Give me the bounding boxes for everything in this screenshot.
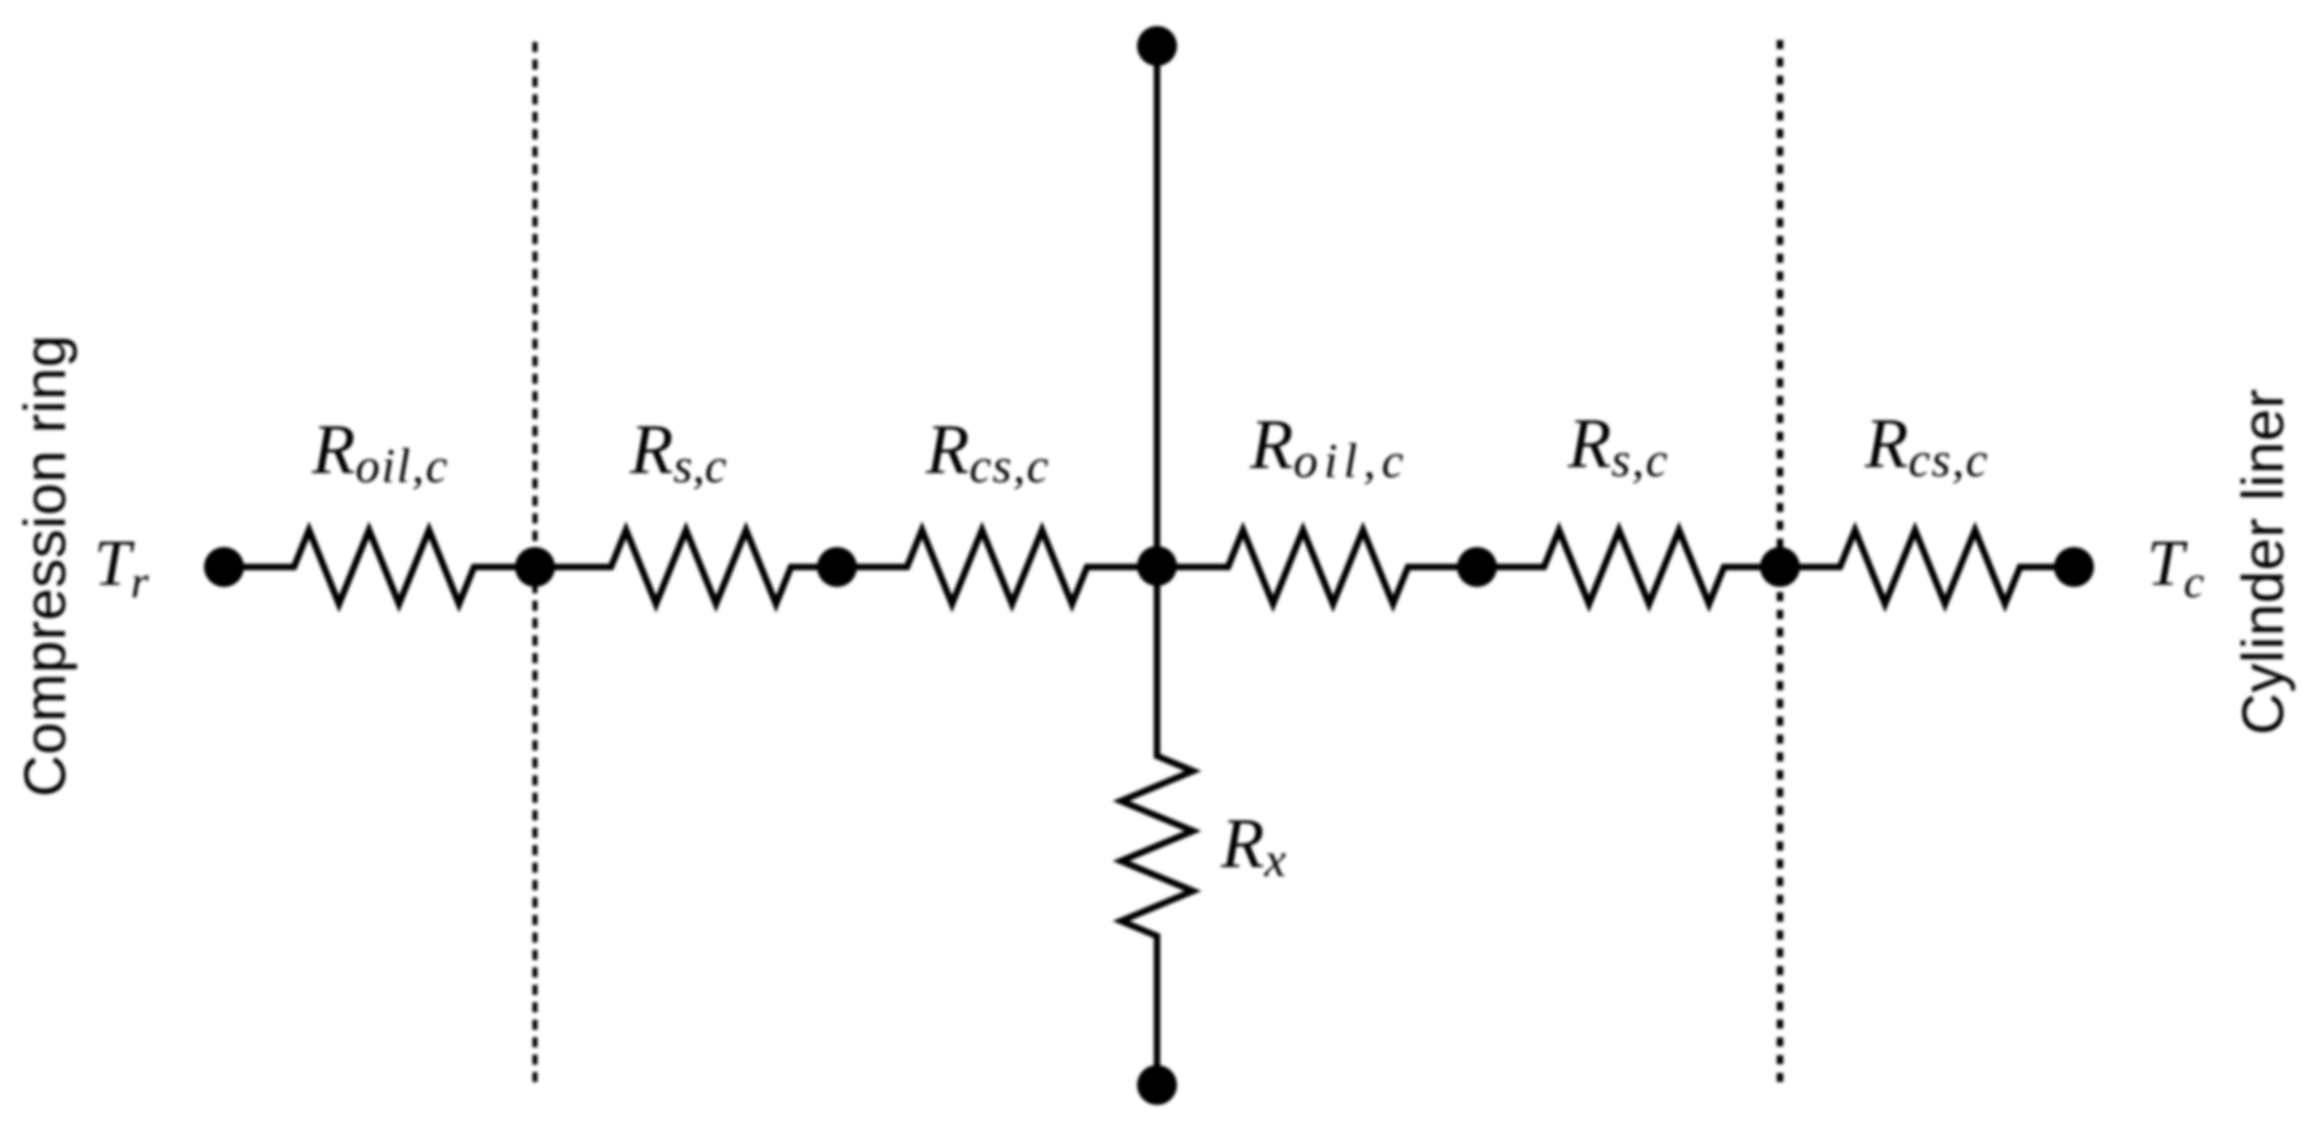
svg-text:Cylinder liner: Cylinder liner xyxy=(2231,389,2296,735)
svg-text:Compression ring: Compression ring xyxy=(13,335,78,797)
